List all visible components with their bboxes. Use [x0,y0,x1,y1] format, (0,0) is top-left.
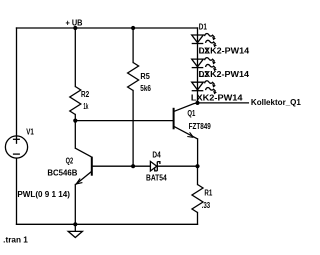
wire Q1 base horizontal [75,120,173,122]
LED D3 [192,81,216,92]
svg-text:+ UB: + UB [66,18,83,27]
svg-text:Q2: Q2 [66,157,74,166]
wire LED string vertical [197,28,199,103]
svg-text:D3: D3 [199,70,210,79]
wire Kollektor_Q1 [198,102,249,104]
svg-text:BC546B: BC546B [47,169,77,178]
wire R5 bottom tail [132,91,134,167]
wire UB/R2 drop [74,28,76,87]
wire R5 drop [132,28,134,63]
wire R1 bottom to rail [197,213,199,225]
wire D4 cathode to node [157,165,197,167]
node dot D4 cathode / Q1 emitter / R1 [195,164,199,168]
svg-text:D4: D4 [152,151,161,160]
diode D4 (schottky) [150,161,160,171]
svg-text:Q1: Q1 [187,109,195,118]
svg-text:D2: D2 [199,47,210,56]
svg-text:FZT849: FZT849 [189,122,212,131]
svg-text:.tran 1: .tran 1 [3,236,28,245]
wire top rail [17,27,198,29]
wire left upper (to V1) [16,28,18,143]
wire R1 top tail [197,166,199,184]
node dot R2 bottom / Q1 base [73,119,77,123]
svg-text:PWL(0 9 1 14): PWL(0 9 1 14) [17,190,70,199]
transistor Q2 (mirrored) [75,148,92,184]
svg-text:D1: D1 [199,22,208,31]
resistor R1 [192,185,203,213]
ground [68,224,82,237]
transistor Q1 [174,103,198,139]
node dot R5 top [131,26,135,30]
svg-text:R5: R5 [140,72,150,81]
resistor R2 [70,87,81,115]
svg-text:5k6: 5k6 [140,84,151,93]
node dot UB/R2 [73,26,77,30]
svg-text:V1: V1 [26,128,34,137]
svg-text:LXK2-PW14: LXK2-PW14 [191,93,243,102]
wire Q2 emitter drop [74,185,76,225]
svg-text:R1: R1 [204,188,212,197]
svg-text:BAT54: BAT54 [146,174,167,183]
transistor Q2 emitter arrow [76,179,82,184]
wire bottom rail [17,223,198,225]
wire R2 bottom tail [74,115,76,121]
voltage source V1 [5,136,27,158]
svg-text:.33: .33 [202,201,211,210]
node dot Q2 base / R5 / D4 [131,164,135,168]
LED D1 [192,34,216,45]
node dot collector junction [195,101,199,105]
resistor R5 [128,63,139,91]
wire Q2 collector drop [74,121,76,149]
wire Q1 emitter vertical to node [197,139,199,166]
LED D2 [192,58,216,69]
svg-text:Kollektor_Q1: Kollektor_Q1 [251,98,302,107]
wire Q2 base to D4 anode [92,165,151,167]
transistor Q1 emitter arrow [187,132,193,137]
node dot ground junction [73,222,77,226]
wire left lower (V1 to bottom rail) [16,158,18,224]
svg-text:1k: 1k [83,102,88,111]
svg-text:R2: R2 [81,90,90,99]
